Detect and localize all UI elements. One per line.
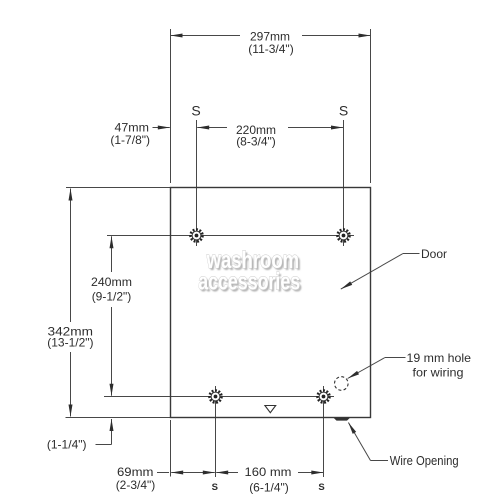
svg-text:Wire Opening: Wire Opening — [390, 454, 459, 468]
svg-text:(13-1/2"): (13-1/2") — [47, 336, 93, 350]
svg-text:S: S — [191, 103, 200, 119]
svg-text:S: S — [318, 482, 324, 493]
svg-text:(2-3/4"): (2-3/4") — [116, 478, 156, 492]
svg-text:69mm: 69mm — [117, 465, 154, 479]
svg-text:19 mm hole: 19 mm hole — [407, 351, 472, 365]
svg-text:for wiring: for wiring — [413, 366, 464, 380]
svg-text:(1-1/4"): (1-1/4") — [47, 438, 87, 452]
svg-text:(6-1/4"): (6-1/4") — [249, 481, 289, 495]
svg-text:Door: Door — [421, 247, 447, 261]
svg-text:240mm: 240mm — [91, 275, 132, 289]
svg-text:S: S — [212, 482, 218, 493]
svg-text:(8-3/4"): (8-3/4") — [236, 135, 276, 149]
svg-text:(1-7/8"): (1-7/8") — [110, 133, 150, 147]
svg-text:accessories: accessories — [198, 269, 300, 296]
svg-text:160 mm: 160 mm — [245, 465, 292, 479]
svg-text:(9-1/2"): (9-1/2") — [92, 290, 132, 304]
svg-text:S: S — [339, 103, 348, 119]
svg-text:(11-3/4"): (11-3/4") — [248, 42, 293, 56]
